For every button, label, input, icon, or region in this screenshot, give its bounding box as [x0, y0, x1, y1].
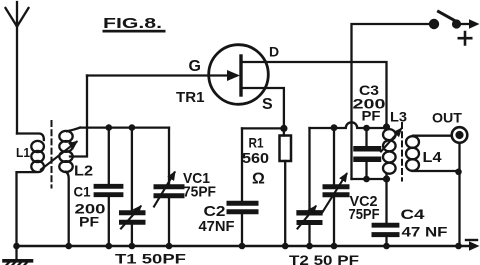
- switch contact left: [429, 19, 439, 29]
- svg-text:47 NF: 47 NF: [402, 224, 449, 240]
- plus sign: [459, 32, 471, 44]
- minus sign: [466, 239, 477, 241]
- wire L1 bottom to ground bus: [17, 172, 36, 246]
- wire L4 bottom to jack ground line: [413, 170, 459, 172]
- battery - arrow: [469, 241, 480, 250]
- wire antenna to L1: [17, 134, 44, 141]
- svg-text:PF: PF: [362, 108, 381, 124]
- svg-text:Ω: Ω: [252, 171, 265, 188]
- svg-text:L4: L4: [423, 149, 443, 166]
- label T1 50PF: [115, 251, 187, 265]
- trimmer T2: [308, 128, 310, 210]
- svg-text:75PF: 75PF: [349, 206, 380, 223]
- tank top rail: [80, 126, 169, 128]
- svg-text:T1 50PF: T1 50PF: [115, 251, 187, 265]
- svg-text:S: S: [262, 96, 273, 113]
- switch lever: [439, 12, 455, 21]
- drain tank rail with hop over battery line: [310, 122, 387, 128]
- wire L4 top to jack: [413, 135, 452, 137]
- battery + arrow: [461, 23, 470, 25]
- svg-text:PF: PF: [79, 214, 100, 230]
- jack down wire: [458, 143, 460, 246]
- ground symbol: [15, 246, 17, 260]
- capacitor C1: [108, 128, 110, 184]
- svg-text:L2: L2: [74, 163, 93, 180]
- core dashed line (L3/L4): [401, 123, 403, 181]
- svg-text:75PF: 75PF: [183, 184, 216, 201]
- svg-text:L1: L1: [16, 145, 30, 160]
- svg-text:R1: R1: [249, 135, 264, 151]
- inductor L1: [31, 141, 44, 172]
- inductor L4: [406, 136, 419, 171]
- title FIG.8.: [103, 15, 162, 32]
- inductor L3: [383, 129, 396, 174]
- core dashed line (L1/L2): [51, 121, 53, 188]
- gate wire: [87, 74, 228, 76]
- label T2 50 PF: [289, 252, 360, 265]
- svg-text:C4: C4: [401, 206, 425, 222]
- tuning arrow L1/L2: [41, 142, 77, 170]
- capacitor C3: [365, 128, 367, 146]
- svg-text:TR1: TR1: [176, 89, 205, 106]
- trimmer T1: [131, 128, 133, 211]
- switch contact right: [452, 19, 461, 28]
- svg-text:C1: C1: [74, 184, 91, 200]
- variable capacitor VC1: [168, 128, 170, 185]
- svg-text:47NF: 47NF: [199, 218, 235, 235]
- capacitor C2: [241, 128, 243, 201]
- resistor R1: [283, 128, 285, 135]
- transistor TR1 (JFET): [209, 45, 269, 105]
- capacitor C4: [385, 179, 387, 223]
- svg-text:OUT: OUT: [432, 110, 462, 126]
- svg-text:560: 560: [242, 150, 269, 167]
- wire L2 top to tank rail: [67, 128, 80, 132]
- OUT jack: [452, 127, 468, 143]
- drain wire: [241, 62, 387, 125]
- variable capacitor VC2: [333, 128, 335, 185]
- svg-text:L3: L3: [390, 109, 407, 125]
- tuning arrow L3/L4: [381, 129, 401, 152]
- antenna: [6, 2, 29, 134]
- svg-text:G: G: [189, 58, 201, 75]
- tank bottom rail: [352, 178, 387, 180]
- inductor L2: [59, 131, 72, 172]
- gate vertical to L2 tap: [70, 76, 87, 157]
- svg-text:FIG.8.: FIG.8.: [103, 15, 162, 32]
- battery + rail and switch wire: [352, 24, 429, 179]
- source wire: [241, 88, 284, 128]
- ground bus: [17, 245, 471, 247]
- svg-text:D: D: [269, 44, 279, 60]
- gate arrowhead: [227, 70, 240, 81]
- svg-text:T2 50 PF: T2 50 PF: [289, 252, 360, 265]
- wire source node to C2: [242, 127, 284, 129]
- wire L2 bottom down to bus: [66, 172, 69, 246]
